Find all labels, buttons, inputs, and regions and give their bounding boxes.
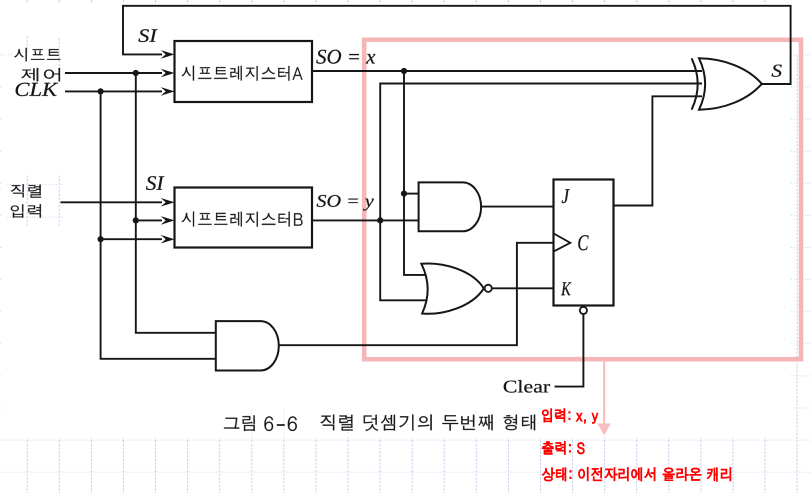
NOR gate G2 output bubble <box>485 285 492 292</box>
wire serial input to SI of register B <box>61 201 163 203</box>
wire Clear to flip-flop clear bubble <box>555 314 584 386</box>
XOR gate U2 body <box>699 58 762 109</box>
label 시프트 <box>14 48 60 61</box>
register A (shift register A) <box>175 41 313 102</box>
label SI (register B) <box>146 176 164 190</box>
AND gate G3 (clock gating) <box>216 321 279 370</box>
label SO = x <box>316 50 375 64</box>
label J <box>562 189 570 203</box>
wire y branch down to NOR G2 lower input <box>380 220 430 300</box>
label SI (register A) <box>138 29 157 42</box>
wire CLK branch to register B <box>101 238 162 240</box>
wire AND G1 output to J input <box>481 206 554 208</box>
caption run 직렬 덧셈기의 두번째 형태 <box>320 415 535 432</box>
wire gated clock from AND G3 to C input <box>279 243 554 345</box>
label C <box>578 235 588 250</box>
wire feedback S output to SI of register A <box>123 6 791 84</box>
flip-flop clear bubble <box>580 307 587 314</box>
flip-flop clock triangle <box>554 233 571 251</box>
AND gate G1 <box>419 182 482 231</box>
label 직렬 <box>11 184 41 197</box>
label 입력 <box>11 204 41 217</box>
arrowhead SI input register A <box>161 50 175 59</box>
junction CLK / register B row <box>98 236 104 242</box>
caption run 그림 <box>224 415 255 431</box>
pink highlight rectangle <box>364 40 801 359</box>
label CLK <box>16 83 59 96</box>
caption glyph 6 second <box>288 416 297 431</box>
white top-right corner <box>790 0 812 54</box>
label register B text 시프트레지스터B <box>182 212 303 227</box>
JK flip-flop U1 box <box>554 180 614 306</box>
arrowhead control input register B <box>161 216 175 225</box>
caption glyph dash <box>277 424 285 425</box>
register B (shift register B) <box>175 188 313 248</box>
grid leak segments near labels <box>27 36 59 227</box>
arrowhead control input register A <box>161 69 175 78</box>
XOR gate U2 input arc <box>692 58 698 109</box>
wire node x from register A to XOR <box>312 70 702 72</box>
wire Q output to XOR lower input <box>614 96 703 205</box>
label S (sum output) <box>772 65 782 77</box>
wire x branch down to AND G1 and NOR G2 <box>404 71 430 275</box>
junction x branch to AND G1 <box>401 191 407 197</box>
wire control vertical down to AND gate G3 <box>136 73 216 333</box>
label SO = y <box>317 195 374 211</box>
red note 상태: 이전자리에서 올라온 캐리 <box>542 468 731 482</box>
arrowhead SI input register B <box>161 198 175 207</box>
junction node x <box>401 68 407 74</box>
wire CLK vertical down to AND gate G3 <box>101 91 216 358</box>
junction CLK / register A row <box>98 88 104 94</box>
wire x into AND G1 upper input <box>404 193 419 195</box>
label K <box>561 282 571 295</box>
wire node y from register B to AND G1 <box>312 219 419 221</box>
wire y branch up to XOR middle input <box>380 84 702 221</box>
wire control branch to register B <box>136 219 162 221</box>
junction control / register B row <box>133 217 139 223</box>
junction node y <box>377 217 383 223</box>
junction control / register A row <box>133 70 139 76</box>
label Clear <box>504 380 550 393</box>
arrowhead CLK input register A <box>161 87 175 96</box>
wire shift control <box>65 72 162 74</box>
caption glyph 6 <box>264 416 273 431</box>
label 제어 <box>21 68 60 81</box>
pink annotation arrow <box>603 361 605 424</box>
label register A text 시프트레지스터A <box>182 66 303 81</box>
NOR gate G2 <box>421 264 483 314</box>
wire CLK <box>65 90 162 92</box>
arrowhead CLK input register B <box>161 235 175 244</box>
grid leak segments inside register boxes and caption <box>179 58 348 436</box>
wire NOR G2 output to K input <box>492 287 554 289</box>
red note 입력: x, y <box>542 409 598 424</box>
red note 출력: S <box>542 442 584 455</box>
